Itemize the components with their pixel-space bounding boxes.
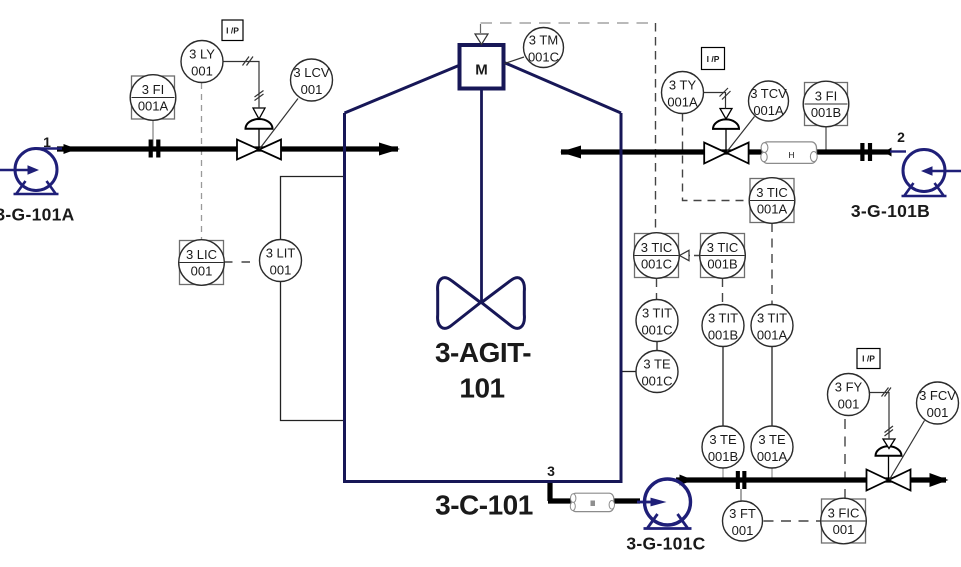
svg-text:001: 001 — [301, 82, 323, 97]
svg-text:001C: 001C — [528, 49, 559, 64]
svg-text:001: 001 — [270, 262, 292, 277]
svg-text:3 FY: 3 FY — [835, 380, 863, 395]
svg-text:3-AGIT-: 3-AGIT- — [435, 337, 531, 368]
svg-text:3: 3 — [547, 463, 555, 479]
svg-text:3-G-101B: 3-G-101B — [851, 201, 930, 221]
svg-text:001: 001 — [732, 523, 754, 538]
svg-text:3 LIT: 3 LIT — [266, 246, 296, 261]
svg-text:3 TIC: 3 TIC — [707, 240, 739, 255]
svg-text:001C: 001C — [641, 322, 672, 337]
svg-text:3 LY: 3 LY — [189, 47, 215, 62]
svg-text:3 FCV: 3 FCV — [919, 388, 956, 403]
svg-text:001: 001 — [191, 63, 213, 78]
svg-text:001: 001 — [838, 396, 860, 411]
svg-text:001: 001 — [191, 264, 213, 279]
svg-text:I /P: I /P — [862, 354, 875, 364]
svg-text:3 FT: 3 FT — [729, 506, 756, 521]
svg-text:3 TY: 3 TY — [669, 78, 697, 93]
svg-text:3 LIC: 3 LIC — [186, 247, 217, 262]
svg-text:001C: 001C — [641, 373, 672, 388]
svg-text:H: H — [788, 150, 794, 160]
svg-text:3-C-101: 3-C-101 — [435, 490, 533, 521]
svg-text:M: M — [475, 62, 488, 79]
svg-text:3 TIC: 3 TIC — [756, 185, 788, 200]
svg-text:3 TE: 3 TE — [709, 432, 737, 447]
svg-text:I /P: I /P — [226, 26, 239, 36]
svg-text:001A: 001A — [667, 94, 698, 109]
svg-text:001A: 001A — [753, 103, 784, 118]
svg-text:001B: 001B — [708, 327, 738, 342]
svg-text:001A: 001A — [757, 449, 788, 464]
svg-text:001A: 001A — [757, 327, 788, 342]
svg-text:3 LCV: 3 LCV — [293, 65, 329, 80]
svg-text:001C: 001C — [641, 257, 672, 272]
svg-text:3 TIT: 3 TIT — [642, 306, 672, 321]
svg-text:001: 001 — [833, 522, 855, 537]
svg-text:001B: 001B — [707, 257, 737, 272]
svg-text:101: 101 — [459, 373, 504, 404]
svg-text:2: 2 — [897, 129, 905, 145]
svg-text:001A: 001A — [757, 202, 788, 217]
svg-text:3 TM: 3 TM — [529, 33, 558, 48]
svg-text:3 TE: 3 TE — [758, 432, 786, 447]
svg-text:3-G-101C: 3-G-101C — [626, 534, 705, 554]
svg-text:1: 1 — [43, 134, 51, 150]
svg-text:3 FIC: 3 FIC — [828, 506, 860, 521]
svg-text:001: 001 — [927, 405, 949, 420]
svg-text:3 TE: 3 TE — [643, 357, 671, 372]
svg-text:3 TIC: 3 TIC — [641, 240, 673, 255]
svg-text:3 FI: 3 FI — [142, 82, 164, 97]
svg-text:3 TIT: 3 TIT — [757, 311, 787, 326]
svg-text:3 TCV: 3 TCV — [750, 86, 787, 101]
svg-text:I /P: I /P — [707, 54, 720, 64]
svg-text:001A: 001A — [138, 99, 169, 114]
svg-text:001B: 001B — [811, 105, 841, 120]
svg-text:3 FI: 3 FI — [815, 89, 837, 104]
svg-text:001B: 001B — [708, 449, 738, 464]
svg-text:3-G-101A: 3-G-101A — [0, 205, 75, 225]
svg-text:3 TIT: 3 TIT — [708, 311, 738, 326]
